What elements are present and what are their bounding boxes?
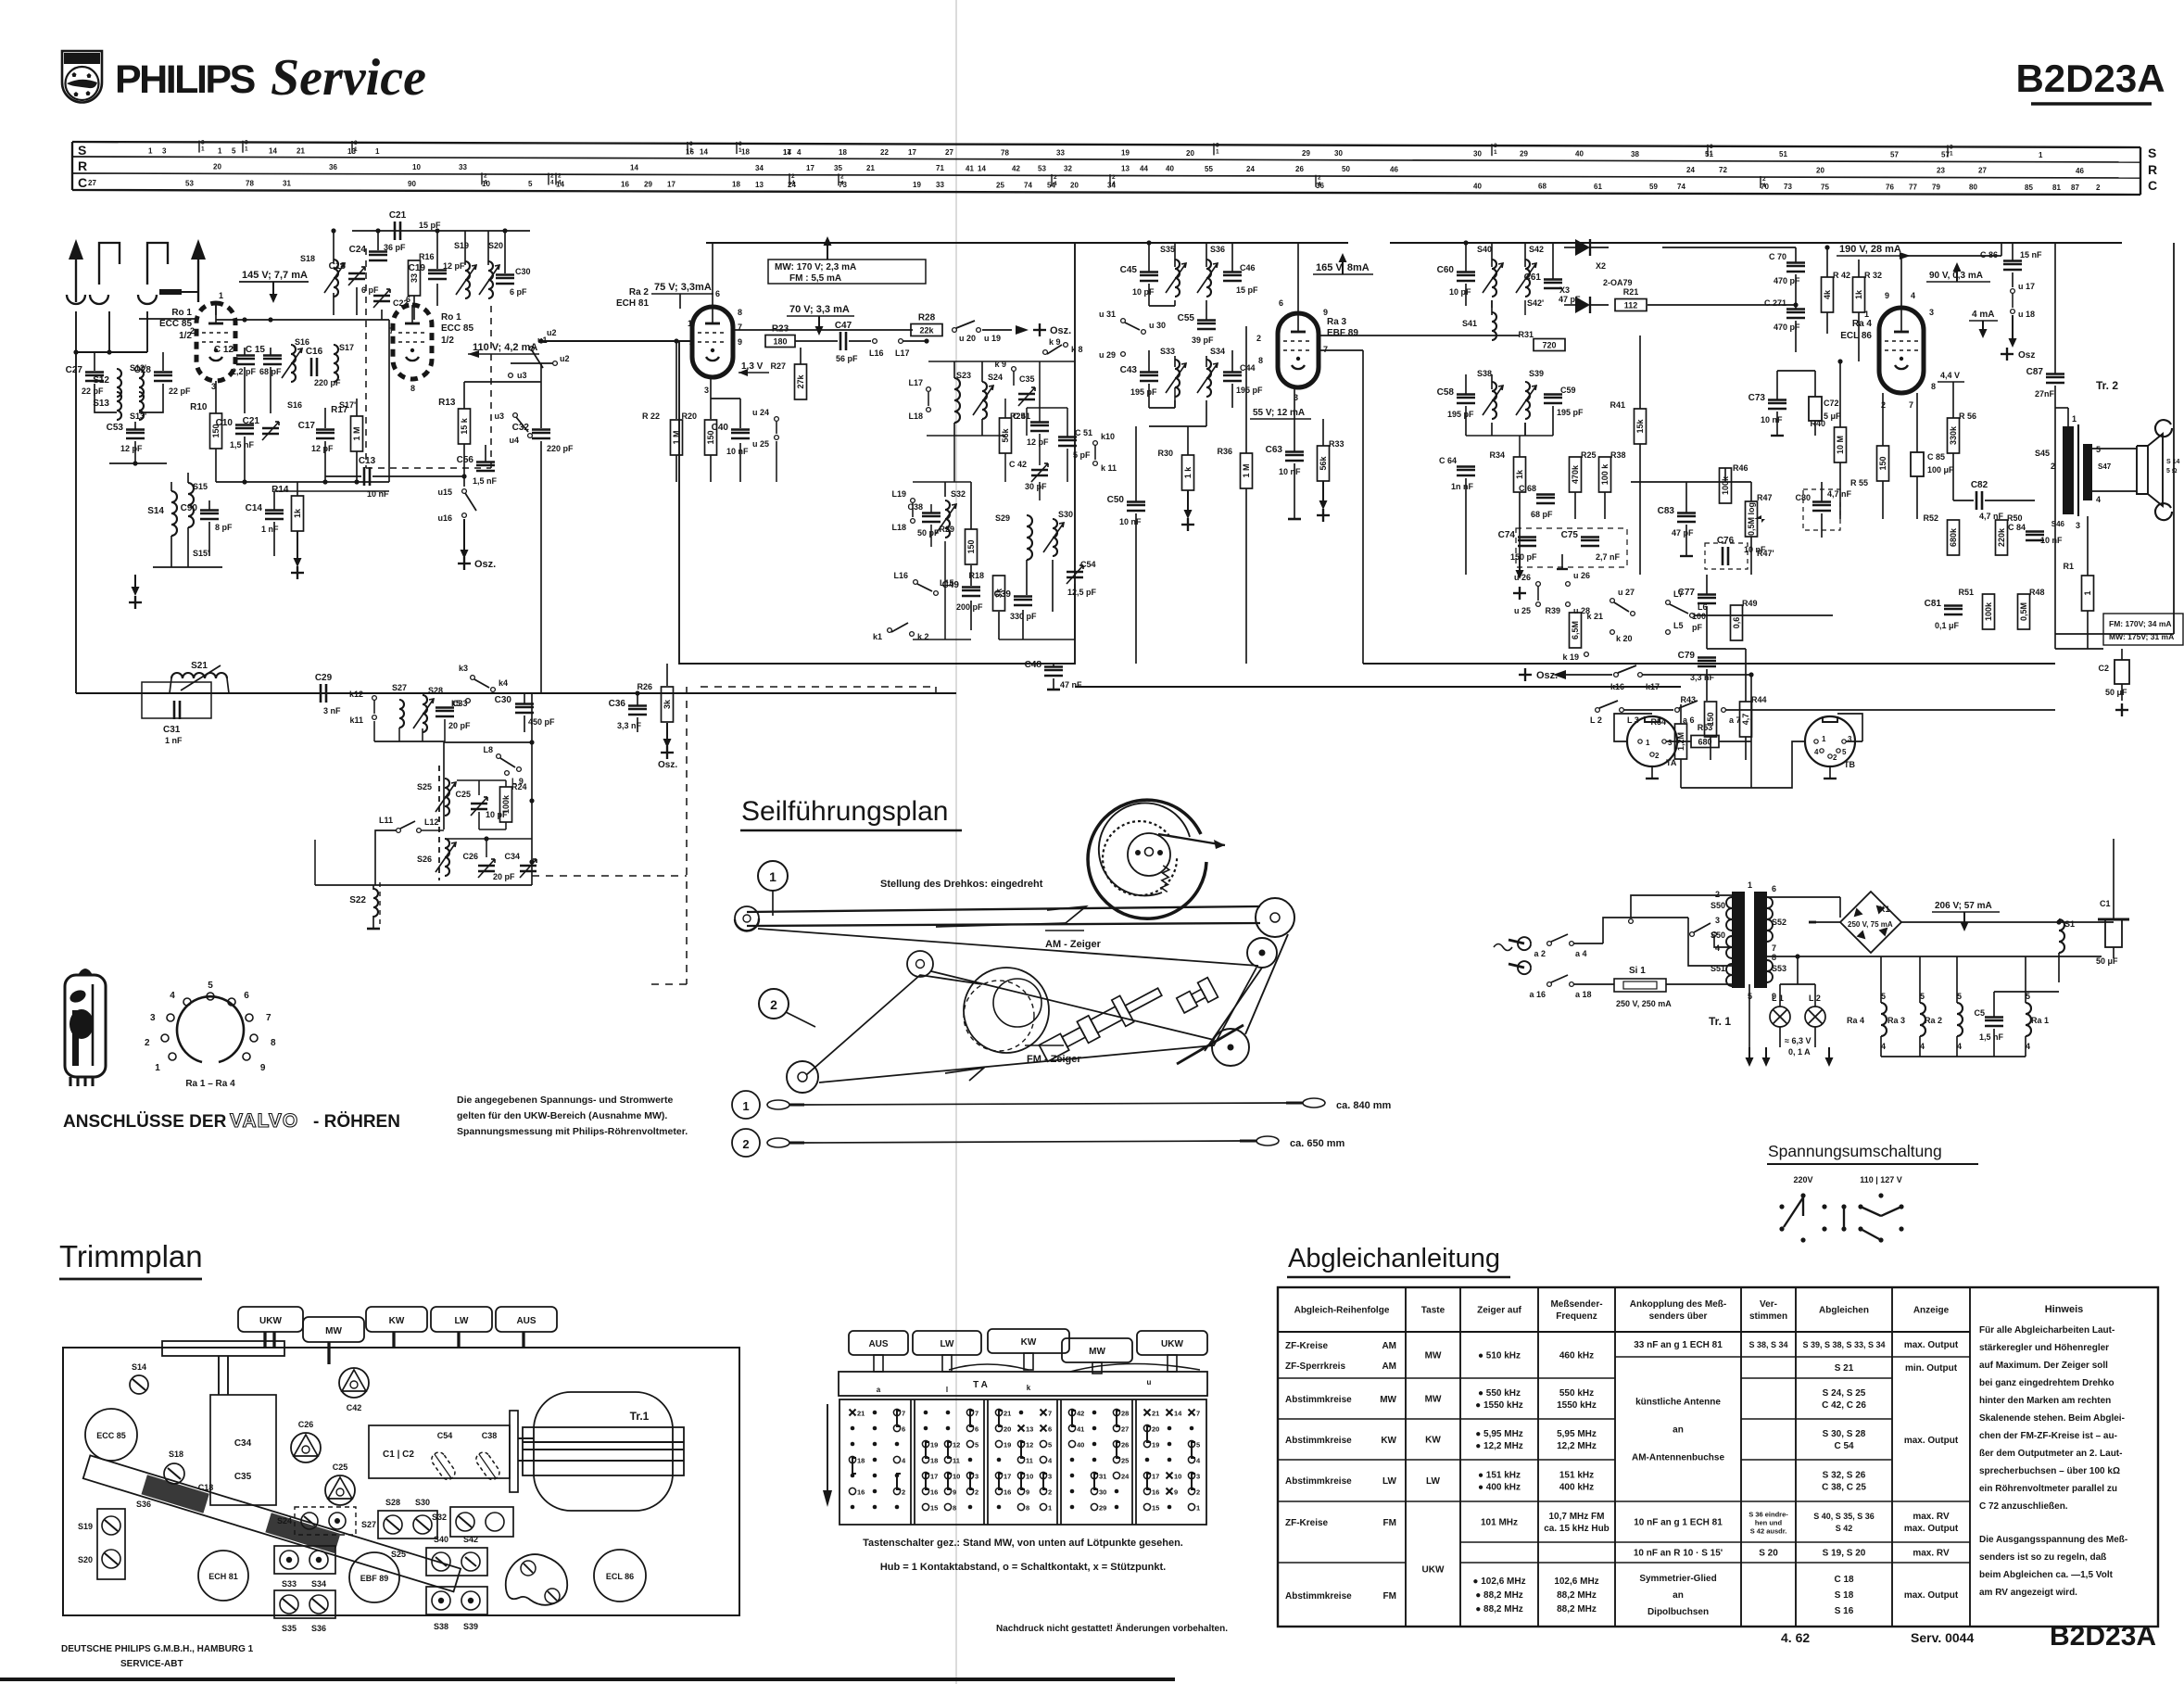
svg-text:16: 16 (621, 180, 629, 188)
svg-text:2: 2 (2051, 462, 2055, 471)
wire EBF anode (1319, 335, 1520, 336)
resistor R30 (1182, 455, 1194, 490)
svg-text:Ra 1: Ra 1 (2031, 1016, 2049, 1025)
svg-text:C31: C31 (163, 725, 181, 735)
svg-text:85: 85 (2025, 184, 2033, 192)
svg-text:3: 3 (245, 140, 248, 146)
svg-text:u 19: u 19 (984, 334, 1001, 343)
resistor R49 (1731, 605, 1743, 640)
svg-text:R51: R51 (1958, 588, 1974, 597)
svg-text:Ro 1: Ro 1 (441, 312, 461, 323)
resistor R34 (1514, 457, 1526, 492)
svg-text:R: R (2148, 162, 2157, 177)
svg-text:1: 1 (218, 147, 222, 156)
svg-text:● 5,95 MHz: ● 5,95 MHz (1475, 1429, 1523, 1439)
svg-text:4,4 V: 4,4 V (1940, 371, 1960, 380)
svg-text:S34: S34 (1210, 347, 1225, 356)
svg-text:C22: C22 (393, 298, 409, 308)
svg-text:S28: S28 (428, 686, 443, 695)
svg-text:1/2: 1/2 (441, 336, 454, 346)
svg-text:an: an (1673, 1425, 1684, 1436)
svg-text:29: 29 (1099, 1504, 1106, 1513)
switch k12 (372, 696, 377, 701)
svg-text:20: 20 (1816, 166, 1824, 174)
svg-text:1,5 nF: 1,5 nF (473, 476, 498, 486)
svg-text:9: 9 (1174, 1488, 1178, 1497)
contacts panel AUS (850, 1410, 856, 1416)
svg-text:2: 2 (1715, 890, 1720, 899)
trimmer S19 (465, 261, 470, 298)
svg-text:UKW: UKW (259, 1316, 282, 1326)
svg-text:24: 24 (1121, 1473, 1130, 1481)
resistor R28 (911, 324, 942, 336)
svg-text:1: 1 (1196, 1504, 1200, 1513)
tube circle ECH81 (198, 1551, 248, 1601)
dashed routing lines (686, 687, 688, 984)
svg-text:S38: S38 (1477, 369, 1492, 378)
svg-text:R20: R20 (681, 412, 697, 421)
svg-text:L16: L16 (893, 571, 908, 580)
svg-text:Service: Service (271, 49, 426, 107)
resistor R24 (500, 787, 512, 822)
capacitor C74b (1722, 547, 1724, 565)
svg-text:1,5 nF: 1,5 nF (230, 440, 255, 449)
svg-text:R41: R41 (1610, 400, 1625, 410)
svg-text:u 31: u 31 (1099, 310, 1116, 319)
svg-text:S17: S17 (339, 343, 354, 352)
button KW (366, 1307, 427, 1332)
capacitor C53 (126, 432, 145, 435)
svg-text:5: 5 (975, 1441, 978, 1450)
svg-text:R: R (78, 158, 87, 173)
svg-text:Tr. 1: Tr. 1 (1709, 1015, 1731, 1028)
switch u17 u18 (2011, 289, 2015, 294)
svg-text:145 V; 7,7 mA: 145 V; 7,7 mA (242, 270, 308, 281)
svg-text:Ra 3: Ra 3 (1327, 317, 1347, 327)
svg-text:S18: S18 (169, 1450, 183, 1459)
svg-text:MW: MW (1089, 1347, 1105, 1357)
svg-text:Seilführungsplan: Seilführungsplan (741, 796, 949, 827)
box S38 S39 (426, 1587, 487, 1614)
svg-text:39 pF: 39 pF (1192, 336, 1214, 345)
svg-text:Tr.1: Tr.1 (630, 1410, 650, 1423)
svg-text:u 30: u 30 (1149, 321, 1166, 330)
svg-text:● 1550 kHz: ● 1550 kHz (1475, 1400, 1523, 1411)
svg-text:2: 2 (1762, 176, 1766, 183)
svg-text:u2: u2 (547, 328, 557, 337)
svg-text:190 V, 28 mA: 190 V, 28 mA (1839, 244, 1901, 255)
button MW (303, 1317, 364, 1342)
svg-text:C 64: C 64 (1439, 456, 1457, 465)
svg-text:27k: 27k (796, 374, 805, 389)
svg-text:150: 150 (1878, 456, 1887, 470)
switch L11 L12 (397, 829, 401, 833)
svg-text:max. Output: max. Output (1904, 1436, 1959, 1446)
svg-text:MW: MW (1425, 1395, 1442, 1405)
wires output (2092, 448, 2137, 449)
switch k10 k11 (1093, 441, 1098, 446)
cord 1 drawing (767, 1100, 789, 1109)
svg-text:DEUTSCHE PHILIPS G.M.B.H., HAM: DEUTSCHE PHILIPS G.M.B.H., HAMBURG 1 (61, 1644, 254, 1654)
ground arrow R14 (297, 531, 298, 559)
capacitor C63 (1285, 454, 1304, 457)
svg-text:110 V; 4,2 mA: 110 V; 4,2 mA (473, 342, 537, 353)
svg-text:Ankopplung des Meß-: Ankopplung des Meß- (1630, 1299, 1726, 1310)
svg-text:33: 33 (936, 181, 944, 189)
svg-text:2: 2 (1655, 752, 1660, 760)
box C1 C2 (369, 1425, 510, 1478)
svg-text:10 pF: 10 pF (1449, 287, 1471, 297)
svg-text:4: 4 (1814, 748, 1819, 756)
capacitor C1 electrolytic (2105, 919, 2122, 947)
svg-text:100 k: 100 k (1600, 463, 1610, 486)
svg-text:17: 17 (908, 148, 916, 157)
key cap LW (913, 1331, 981, 1355)
resistor R41 (1635, 409, 1647, 444)
svg-text:C83: C83 (1658, 506, 1675, 516)
capacitor C27 (94, 352, 95, 371)
svg-text:S15': S15' (193, 549, 209, 558)
svg-text:7: 7 (975, 1410, 978, 1418)
svg-text:Spannungsmessung mit Philips-R: Spannungsmessung mit Philips-Röhrenvoltm… (457, 1126, 688, 1137)
svg-text:Tastenschalter gez.: Stand MW: Tastenschalter gez.: Stand MW, von unten… (863, 1538, 1183, 1549)
svg-text:a 2: a 2 (1534, 949, 1546, 958)
svg-text:470k: 470k (1571, 464, 1580, 484)
antenna bracket 1 (99, 243, 120, 285)
svg-text:u2: u2 (560, 354, 570, 363)
svg-text:S36: S36 (311, 1624, 326, 1633)
svg-text:L 1: L 1 (1772, 994, 1784, 1003)
svg-text:R40: R40 (1810, 419, 1825, 428)
svg-text:C50: C50 (1107, 495, 1125, 505)
svg-text:S32: S32 (951, 489, 966, 499)
svg-text:5 μF: 5 μF (1824, 412, 1841, 421)
top bus wire (706, 242, 1348, 244)
svg-text:S34: S34 (311, 1579, 326, 1589)
svg-text:70 V; 3,3 mA: 70 V; 3,3 mA (789, 304, 850, 315)
svg-text:5: 5 (1048, 1441, 1052, 1450)
svg-text:1: 1 (1864, 310, 1869, 319)
Osz arrow bottom (666, 723, 668, 740)
svg-text:220 pF: 220 pF (547, 444, 574, 453)
resistor R38 (1599, 457, 1611, 492)
wire top bus right (1390, 242, 2122, 244)
capacitor C49 (962, 589, 980, 592)
wires mid tuner (215, 381, 217, 413)
capacitor C14 (265, 513, 284, 515)
svg-text:5: 5 (528, 180, 533, 188)
svg-text:4,7: 4,7 (1741, 714, 1750, 726)
capacitor C19 (428, 272, 447, 275)
svg-text:ein Röhrenvoltmeter parallel z: ein Röhrenvoltmeter parallel zu (1979, 1484, 2117, 1494)
svg-text:21: 21 (1004, 1410, 1011, 1418)
capacitor C43 (1140, 374, 1158, 377)
svg-text:23: 23 (1937, 167, 1945, 175)
switch k1 k2 (888, 628, 892, 633)
svg-text:10 nF an g 1 ECH 81: 10 nF an g 1 ECH 81 (1634, 1518, 1723, 1528)
coil S15 (188, 483, 194, 527)
svg-text:3: 3 (1710, 144, 1713, 150)
svg-text:2: 2 (840, 173, 844, 180)
svg-text:1 nF: 1 nF (261, 525, 279, 534)
svg-text:2: 2 (770, 997, 777, 1012)
svg-text:k3: k3 (459, 664, 468, 673)
svg-text:S 42: S 42 (1836, 1524, 1853, 1533)
svg-text:ZF-Sperrkreis: ZF-Sperrkreis (1285, 1361, 1345, 1372)
svg-text:21: 21 (857, 1410, 865, 1418)
stroke direction arrow (827, 1404, 828, 1494)
svg-text:FM: 170V; 34 mA: FM: 170V; 34 mA (2109, 619, 2172, 628)
svg-text:100: 100 (1692, 612, 1706, 621)
svg-text:C48: C48 (1025, 660, 1042, 670)
svg-text:S 38, S 34: S 38, S 34 (1748, 1340, 1787, 1349)
mixer stage box (679, 243, 1075, 664)
Osz plus right (982, 329, 1012, 331)
Philips shield logo (62, 51, 102, 103)
resistor R50 (1996, 520, 2008, 555)
svg-text:Skalenende stehen. Beim Abglei: Skalenende stehen. Beim Abglei- (1979, 1413, 2125, 1424)
svg-text:C 86: C 86 (1980, 250, 1998, 260)
svg-text:9: 9 (953, 1488, 956, 1497)
svg-text:Osz.: Osz. (1050, 325, 1071, 336)
svg-text:C79: C79 (1678, 651, 1696, 661)
svg-text:4: 4 (1112, 181, 1116, 187)
svg-text:C34: C34 (234, 1438, 252, 1449)
band tick clusters (198, 141, 200, 153)
svg-text:3: 3 (1196, 1473, 1200, 1481)
table column lines (1405, 1287, 1407, 1627)
svg-text:L18: L18 (891, 523, 906, 532)
heater Ra4 (1881, 1003, 1887, 1036)
svg-text:3: 3 (1668, 739, 1673, 747)
rectifier K1 (1840, 892, 1901, 953)
resistor R20 (705, 420, 717, 455)
diode X2 (1575, 239, 1590, 256)
wires IF2 (1465, 243, 1467, 272)
svg-text:12: 12 (1026, 1441, 1033, 1450)
svg-text:4,7 nF: 4,7 nF (1827, 489, 1852, 499)
svg-text:R10: R10 (190, 402, 208, 412)
contacts L19 L18b (911, 499, 915, 503)
capacitor C56 (476, 464, 495, 467)
svg-text:S32: S32 (432, 1513, 447, 1522)
svg-text:27: 27 (1121, 1425, 1129, 1434)
capacitor C38 (922, 515, 941, 518)
svg-text:C19: C19 (409, 263, 426, 273)
svg-text:6: 6 (975, 1425, 978, 1434)
svg-text:C 38, C 25: C 38, C 25 (1822, 1483, 1866, 1493)
svg-text:C82: C82 (1971, 480, 1988, 490)
rail bar top (162, 1341, 284, 1356)
svg-text:R 42: R 42 (1833, 271, 1850, 280)
right pulley top (1256, 898, 1294, 937)
svg-text:S24: S24 (988, 373, 1003, 382)
box S35 S36 (274, 1590, 335, 1618)
coil S22 (372, 885, 374, 890)
svg-text:L 2: L 2 (1590, 715, 1602, 725)
coil S29 (1027, 515, 1032, 560)
svg-text:206 V; 57 mA: 206 V; 57 mA (1935, 901, 1992, 911)
svg-text:S21: S21 (191, 661, 208, 671)
capacitor C28 (162, 352, 164, 371)
svg-text:2: 2 (558, 173, 562, 180)
svg-text:C 85: C 85 (1927, 452, 1945, 462)
svg-text:an: an (1673, 1590, 1684, 1601)
svg-text:27: 27 (945, 148, 953, 157)
svg-text:max. Output: max. Output (1904, 1524, 1959, 1534)
svg-text:u 26: u 26 (1514, 573, 1531, 582)
svg-text:3: 3 (162, 146, 167, 155)
resistor R48 (2018, 594, 2030, 629)
svg-text:51: 51 (1779, 150, 1787, 158)
svg-text:195 pF: 195 pF (1236, 386, 1263, 395)
resistor R27 (795, 364, 807, 399)
svg-text:400 kHz: 400 kHz (1559, 1483, 1594, 1493)
svg-text:C 42: C 42 (1009, 460, 1027, 469)
wires FM tank (377, 231, 379, 250)
svg-text:22 pF: 22 pF (82, 386, 104, 396)
svg-text:C5: C5 (1974, 1008, 1985, 1018)
capacitor C68 (1536, 497, 1555, 500)
svg-text:S 16: S 16 (1835, 1606, 1854, 1616)
wire left tuner (95, 399, 117, 412)
svg-text:C75: C75 (1561, 530, 1579, 540)
box S32 (450, 1507, 513, 1537)
svg-text:34: 34 (755, 164, 764, 172)
svg-text:senders ist so zu regeln, daß: senders ist so zu regeln, daß (1979, 1552, 2106, 1563)
svg-text:u3: u3 (517, 371, 527, 380)
svg-text:55 V; 12 mA: 55 V; 12 mA (1253, 408, 1305, 418)
svg-text:L11: L11 (379, 816, 393, 825)
resistor R22 (671, 420, 683, 455)
svg-text:3: 3 (1216, 142, 1219, 148)
svg-text:C30: C30 (495, 695, 512, 705)
svg-text:16: 16 (857, 1488, 865, 1497)
svg-text:C46: C46 (1240, 263, 1256, 272)
svg-text:FM : 5,5 mA: FM : 5,5 mA (789, 273, 841, 284)
svg-text:Hinweis: Hinweis (2045, 1304, 2084, 1315)
svg-text:FM: FM (1383, 1518, 1396, 1528)
svg-text:3: 3 (1929, 308, 1934, 317)
svg-text:5: 5 (1842, 748, 1847, 756)
svg-text:Meßsender-: Meßsender- (1550, 1299, 1602, 1310)
svg-text:auf Maximum. Der Zeiger soll: auf Maximum. Der Zeiger soll (1979, 1361, 2108, 1371)
switch L9 (505, 771, 510, 776)
svg-text:k: k (1027, 1384, 1031, 1392)
svg-text:C54: C54 (1080, 560, 1096, 569)
key cap AUS (849, 1331, 908, 1355)
flat antenna bar (159, 289, 182, 295)
svg-text:S36: S36 (136, 1500, 151, 1509)
svg-text:- RÖHREN: - RÖHREN (313, 1112, 400, 1132)
trimmer C25b (471, 803, 487, 805)
svg-text:3: 3 (1494, 143, 1497, 149)
svg-text:C63: C63 (1266, 445, 1283, 455)
svg-text:L17: L17 (908, 378, 923, 387)
svg-text:PHILIPS: PHILIPS (68, 56, 97, 64)
heater Ra3 (1920, 1003, 1925, 1036)
capacitor C29 (320, 684, 322, 703)
svg-text:u 17: u 17 (2018, 282, 2035, 291)
svg-text:1: 1 (1822, 735, 1826, 743)
svg-text:R30: R30 (1157, 449, 1173, 458)
svg-text:8: 8 (271, 1038, 276, 1048)
capacitor C80 dashed (1803, 489, 1840, 530)
svg-text:8: 8 (953, 1504, 956, 1513)
svg-text:beim Abgleichen ca. —1,5 Volt: beim Abgleichen ca. —1,5 Volt (1979, 1570, 2114, 1580)
svg-text:ECC 85: ECC 85 (96, 1431, 126, 1440)
svg-text:3: 3 (150, 1013, 156, 1023)
svg-text:R50: R50 (2007, 513, 2023, 523)
IF transformer S40 S42 (1492, 260, 1496, 297)
capacitor C81 (1944, 608, 1963, 611)
switch u2 (511, 362, 552, 364)
svg-text:78: 78 (1001, 148, 1009, 157)
svg-text:C73: C73 (1748, 393, 1766, 403)
svg-text:2: 2 (1256, 334, 1261, 343)
switches k21 k19 k20 (1610, 599, 1615, 603)
coil S21 variable (171, 673, 227, 678)
svg-text:1: 1 (155, 1063, 160, 1073)
svg-text:B2D23A: B2D23A (2050, 1621, 2156, 1652)
contacts panel MW (1068, 1409, 1075, 1415)
svg-text:33: 33 (459, 163, 467, 171)
svg-text:20: 20 (1004, 1425, 1011, 1434)
coil S1 (2059, 919, 2064, 953)
svg-text:ca. 15 kHz Hub: ca. 15 kHz Hub (1544, 1524, 1610, 1534)
svg-text:S1: S1 (2064, 919, 2075, 929)
svg-text:40: 40 (1077, 1441, 1084, 1450)
contacts panel LW (924, 1411, 928, 1415)
dashed gang C74 (1516, 528, 1627, 567)
svg-text:41: 41 (966, 164, 974, 172)
svg-text:18: 18 (732, 181, 740, 189)
capacitor C90 (200, 513, 219, 515)
box C31 (142, 682, 211, 718)
capacitor C54 (1067, 571, 1083, 574)
jack bottom (2155, 503, 2172, 520)
svg-text:1k: 1k (1854, 289, 1863, 299)
svg-text:100k: 100k (1984, 601, 1993, 621)
svg-text:ECH 81: ECH 81 (616, 298, 649, 309)
AM pointer (936, 923, 1066, 927)
svg-text:K1: K1 (1879, 905, 1890, 914)
svg-text:S30: S30 (1058, 510, 1073, 519)
svg-text:S 39, S 38, S 33, S 34: S 39, S 38, S 33, S 34 (1802, 1340, 1885, 1349)
svg-text:47 nF: 47 nF (1060, 680, 1082, 690)
heater Ra2 (1957, 1003, 1963, 1036)
svg-text:S50: S50 (1711, 931, 1725, 940)
svg-text:110 | 127 V: 110 | 127 V (1860, 1175, 1902, 1184)
svg-text:Symmetrier-Glied: Symmetrier-Glied (1639, 1574, 1716, 1584)
svg-text:ECC 85: ECC 85 (159, 319, 192, 329)
svg-text:KW: KW (1021, 1337, 1037, 1348)
svg-text:19: 19 (1004, 1441, 1011, 1450)
switch voltage selector (1690, 932, 1695, 937)
trimmer S25 (445, 779, 449, 816)
svg-text:k 19: k 19 (1562, 652, 1579, 662)
svg-text:C25: C25 (333, 1462, 348, 1472)
svg-text:20: 20 (213, 163, 221, 171)
svg-text:73: 73 (1784, 183, 1792, 191)
svg-text:u16: u16 (437, 513, 452, 523)
svg-text:C45: C45 (1120, 265, 1138, 275)
svg-text:57: 57 (1890, 150, 1899, 158)
svg-text:a: a (877, 1386, 881, 1394)
coil S27 (399, 700, 404, 728)
svg-text:7: 7 (266, 1013, 271, 1023)
scan fold line (955, 0, 957, 1684)
